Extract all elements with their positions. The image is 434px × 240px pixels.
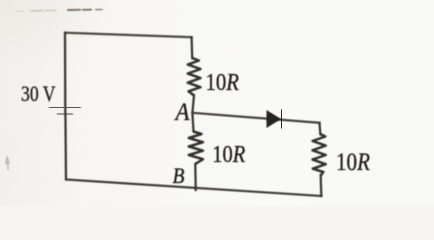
wire: middle branch bottom stub to node B xyxy=(194,164,197,190)
diode D1 cathode bar xyxy=(280,109,284,128)
wire: left vertical upper (battery top lead) xyxy=(64,33,67,113)
resistor R2 (lower middle, 10R) zigzag xyxy=(189,132,203,165)
wire: top horizontal from battery branch to middle branch xyxy=(65,33,192,38)
battery 30 V: short plate xyxy=(57,112,73,116)
faint pencil mark left margin xyxy=(6,156,10,170)
svg-text:B: B xyxy=(173,163,185,188)
svg-text:10R: 10R xyxy=(336,149,370,176)
resistor R3 (right branch, 10R) zigzag xyxy=(313,134,326,176)
wire: right branch bottom stub xyxy=(320,176,323,197)
svg-text:A: A xyxy=(174,99,190,126)
svg-text:10R: 10R xyxy=(212,142,245,168)
cropped text smudge top-left xyxy=(16,9,102,11)
svg-text:10R: 10R xyxy=(206,70,240,96)
wire: middle branch between resistor R1 and node A xyxy=(192,96,194,113)
wire: node A to diode to right branch horizontal xyxy=(192,113,319,123)
battery 30 V: long plate xyxy=(49,106,81,109)
resistor R1 (top middle, 10R) zigzag xyxy=(188,58,201,96)
wire: bottom horizontal from battery to right branch xyxy=(66,180,322,197)
wire: middle branch top stub xyxy=(191,37,194,58)
wire: left vertical lower (battery bottom lead) xyxy=(64,113,67,180)
svg-text:30 V: 30 V xyxy=(21,81,56,106)
diode D1 (anode at node A side, pointing right) triangle xyxy=(267,111,280,127)
wire: middle branch from node A to resistor R2 xyxy=(192,113,193,132)
wire: right branch top stub xyxy=(318,123,321,134)
